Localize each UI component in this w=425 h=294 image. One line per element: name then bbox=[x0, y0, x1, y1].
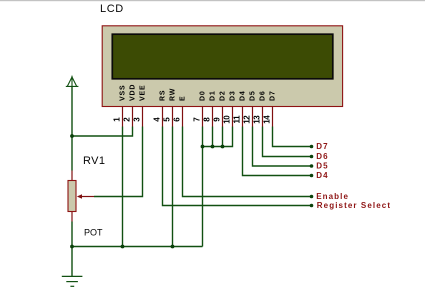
ground symbol bbox=[62, 276, 83, 286]
wire: pin13 D6 to label bbox=[263, 127, 312, 157]
LCD pins (red stubs) bbox=[123, 106, 273, 126]
junction dot bus pin9 bbox=[221, 145, 225, 149]
svg-text:D6: D6 bbox=[316, 152, 328, 161]
svg-text:13: 13 bbox=[253, 115, 262, 124]
terminal dot D4 bbox=[310, 174, 314, 178]
svg-text:D2: D2 bbox=[220, 90, 227, 101]
svg-text:POT: POT bbox=[84, 227, 103, 237]
junction dot ground rail left bbox=[70, 245, 74, 249]
pin 9 stub bbox=[222, 106, 224, 126]
svg-text:D7: D7 bbox=[270, 90, 277, 101]
junction dot ground rail pin5 bbox=[171, 245, 175, 249]
terminal dot Enable bbox=[310, 195, 314, 199]
wire: pin5 RW down to ground rail bbox=[172, 127, 174, 247]
LCD pin numbers (rotated) bbox=[113, 115, 272, 124]
wire: pin9 D2 to bus bbox=[222, 127, 224, 147]
wire: pin11 D4 to label bbox=[243, 127, 312, 176]
terminal dot Register Select bbox=[310, 204, 314, 208]
wire: pin7 D0 down to ground rail bbox=[202, 127, 204, 247]
pin 7 stub bbox=[202, 106, 204, 126]
svg-text:D7: D7 bbox=[316, 142, 328, 151]
svg-text:D4: D4 bbox=[316, 171, 328, 180]
pin 4 stub bbox=[162, 106, 164, 126]
svg-text:VDD: VDD bbox=[130, 84, 137, 101]
pin 12 stub bbox=[252, 106, 254, 126]
pin 8 stub bbox=[212, 106, 214, 126]
potentiometer RV1 wiper arrow bbox=[77, 194, 94, 199]
svg-text:RS: RS bbox=[160, 90, 167, 101]
potentiometer RV1 pins bbox=[71, 171, 73, 222]
svg-text:E: E bbox=[180, 96, 187, 101]
terminal dot D5 bbox=[310, 164, 314, 168]
wire: pin12 D5 to label bbox=[253, 127, 312, 167]
wire: pin1 VSS down to ground rail bbox=[122, 127, 124, 247]
svg-text:D6: D6 bbox=[260, 90, 267, 101]
wire: pin14 D7 to label bbox=[273, 127, 312, 147]
pin 5 stub bbox=[172, 106, 174, 126]
pin 3 stub bbox=[142, 106, 144, 126]
wire: power rail down to pot top bbox=[71, 86, 73, 170]
svg-text:12: 12 bbox=[243, 115, 252, 124]
svg-text:LCD: LCD bbox=[100, 3, 124, 15]
svg-text:D5: D5 bbox=[316, 162, 328, 171]
svg-text:D3: D3 bbox=[230, 90, 237, 101]
svg-text:D0: D0 bbox=[200, 90, 207, 101]
svg-text:D1: D1 bbox=[210, 90, 217, 101]
wire: pin3 VEE to pot wiper bbox=[94, 127, 143, 197]
pin 11 stub bbox=[242, 106, 244, 126]
pin 2 stub bbox=[132, 106, 134, 126]
svg-text:Enable: Enable bbox=[316, 192, 349, 201]
svg-text:Register Select: Register Select bbox=[317, 201, 391, 210]
wire: ground stem bbox=[71, 247, 73, 277]
wire: pin4 RS to Register Select bbox=[163, 127, 312, 206]
power symbol (+5V up arrow) bbox=[66, 76, 79, 87]
wire: ground rail bbox=[72, 246, 203, 248]
svg-text:RW: RW bbox=[170, 88, 177, 101]
wire: pin6 E to Enable bbox=[183, 127, 312, 197]
LCD1 body bbox=[102, 26, 342, 107]
svg-text:D5: D5 bbox=[250, 90, 257, 101]
LCD1 screen bbox=[112, 34, 332, 79]
svg-text:VEE: VEE bbox=[140, 85, 147, 101]
wire: pin2 VDD to power rail bbox=[72, 127, 133, 137]
terminal dot D7 bbox=[310, 145, 314, 149]
potentiometer RV1 body bbox=[68, 181, 76, 212]
junction dot ground rail pin1 bbox=[121, 245, 125, 249]
pin 10 stub bbox=[232, 106, 234, 126]
svg-text:11: 11 bbox=[233, 115, 242, 124]
wire: pin8 D1 to bus bbox=[212, 127, 214, 147]
LCD pin name labels (rotated) bbox=[120, 84, 277, 101]
svg-text:RV1: RV1 bbox=[83, 155, 105, 167]
wire: pot bottom to ground rail bbox=[71, 222, 73, 247]
pin 14 stub bbox=[272, 106, 274, 126]
svg-text:VSS: VSS bbox=[120, 85, 127, 101]
junction dot bus pin8 bbox=[211, 145, 215, 149]
junction dot bus pin7 bbox=[201, 145, 205, 149]
wire: pin10 D3 to bus bbox=[203, 127, 233, 147]
svg-text:D4: D4 bbox=[240, 90, 247, 101]
svg-text:10: 10 bbox=[223, 115, 232, 124]
top canvas edge line bbox=[0, 0, 425, 1]
pin 1 stub bbox=[122, 106, 124, 126]
junction dot rail/pin2 bbox=[70, 134, 74, 138]
pin 6 stub bbox=[182, 106, 184, 126]
terminal dot D6 bbox=[310, 155, 314, 159]
svg-text:14: 14 bbox=[263, 115, 272, 124]
pin 13 stub bbox=[262, 106, 264, 126]
